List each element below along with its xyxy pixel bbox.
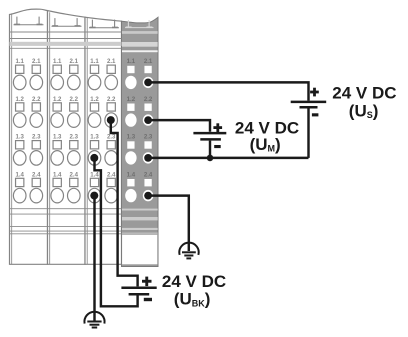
svg-text:2.4: 2.4 [70, 171, 79, 178]
svg-text:2.1: 2.1 [70, 58, 79, 65]
svg-text:2.3: 2.3 [144, 134, 153, 141]
svg-text:1.2: 1.2 [127, 96, 136, 103]
svg-text:2.1: 2.1 [107, 58, 116, 65]
terminal 1.2 module 4 [125, 96, 136, 127]
terminal 2.2 module 1 [30, 96, 43, 128]
terminal 1.4 module 2 [51, 171, 64, 203]
svg-text:1.3: 1.3 [53, 134, 62, 141]
module 1 terminal block [10, 9, 48, 264]
wire 2.1 to US battery plus [148, 82, 308, 100]
terminal 2.2 module 4 [143, 96, 154, 126]
label 24 V DC (US) [332, 84, 396, 121]
wire 2.3 common minus [148, 157, 308, 159]
terminal 2.1 module 4 [143, 58, 154, 88]
svg-text:24 V DC: 24 V DC [332, 84, 396, 103]
module 3 terminal block [85, 17, 122, 264]
terminal 1.3 module 2 [51, 134, 64, 166]
node module3 1.3 [90, 154, 98, 162]
latch icon module 3 [89, 20, 119, 28]
terminal 2.1 module 1 [30, 58, 43, 90]
battery US [291, 102, 327, 107]
svg-text:2.2: 2.2 [32, 96, 41, 103]
node module3 2.2 [107, 116, 115, 124]
label plate module 4 [122, 235, 157, 264]
svg-text:1.1: 1.1 [15, 58, 24, 65]
lower bands dark module [122, 209, 158, 235]
svg-text:1.3: 1.3 [90, 134, 99, 141]
terminal 2.3 module 2 [68, 134, 81, 166]
wire module3 1.4 to protective earth [93, 196, 95, 321]
wire 2.4 to functional earth [148, 196, 189, 251]
label 24 V DC (UBK) [162, 272, 226, 308]
svg-text:2.3: 2.3 [107, 134, 116, 141]
terminal 2.3 module 3 [105, 134, 118, 166]
svg-text:1.1: 1.1 [90, 58, 99, 65]
minus sign UM [214, 145, 221, 148]
svg-text:2.2: 2.2 [144, 96, 153, 103]
minus sign US [312, 113, 319, 116]
battery UBK [121, 288, 156, 295]
node module3 1.4 [90, 192, 98, 200]
terminal 1.1 module 4 [125, 58, 136, 89]
svg-text:2.2: 2.2 [107, 96, 116, 103]
svg-text:1.2: 1.2 [90, 96, 99, 103]
terminal 1.1 module 1 [13, 58, 26, 90]
svg-text:2.1: 2.1 [144, 58, 153, 65]
module 4 bus terminal (highlighted) [122, 17, 159, 266]
ground symbol right [179, 243, 198, 259]
svg-text:24 V DC: 24 V DC [162, 272, 226, 291]
svg-text:1.4: 1.4 [53, 171, 62, 178]
terminal 1.3 module 4 [125, 134, 136, 165]
terminal 2.3 module 4 [143, 134, 154, 164]
latch icon module 4 [125, 20, 154, 28]
terminal 2.4 module 1 [30, 171, 43, 203]
svg-text:1.4: 1.4 [127, 171, 136, 178]
svg-text:1.1: 1.1 [127, 58, 136, 65]
upper band lines light modules [10, 32, 122, 48]
wire 2.2 to UM battery plus [148, 120, 210, 132]
svg-text:1.1: 1.1 [53, 58, 62, 65]
terminal 2.1 module 3 [105, 58, 118, 90]
junction node UM minus [207, 155, 214, 162]
terminal 2.2 module 2 [68, 96, 81, 128]
svg-text:(UM): (UM) [250, 135, 281, 154]
svg-text:1.4: 1.4 [90, 171, 99, 178]
svg-text:1.3: 1.3 [127, 134, 136, 141]
wire module3 2.2 to UBK battery plus [111, 120, 138, 286]
svg-text:2.4: 2.4 [32, 171, 41, 178]
plus sign US [310, 88, 319, 97]
wire UBK battery minus to module3 1.3 [95, 158, 138, 306]
terminal 1.2 module 2 [51, 96, 64, 128]
terminal 2.4 module 4 [143, 171, 154, 201]
terminal 1.2 module 3 [88, 96, 101, 128]
wire US battery minus down [307, 109, 309, 158]
svg-text:(US): (US) [349, 101, 379, 120]
wire UM battery minus down [209, 141, 211, 158]
module 2 terminal block [48, 11, 86, 265]
terminal 1.1 module 2 [51, 58, 64, 90]
svg-text:2.3: 2.3 [32, 134, 41, 141]
svg-text:(UBK): (UBK) [174, 290, 211, 309]
terminal 2.4 module 3 [105, 171, 118, 203]
svg-text:1.4: 1.4 [15, 171, 24, 178]
latch icon module 2 [52, 18, 82, 26]
terminal 1.3 module 3 [88, 134, 101, 166]
upper bands dark module [122, 31, 158, 52]
latch icon module 1 [14, 17, 44, 25]
label 24 V DC (UM) [235, 119, 299, 154]
terminal 2.2 module 3 [105, 96, 118, 128]
svg-text:2.2: 2.2 [70, 96, 79, 103]
svg-text:2.4: 2.4 [144, 171, 153, 178]
lower band lines light modules [10, 209, 122, 234]
svg-text:2.3: 2.3 [70, 134, 79, 141]
svg-text:1.2: 1.2 [15, 96, 24, 103]
upper gray band light modules [10, 42, 122, 46]
svg-text:2.4: 2.4 [107, 171, 116, 178]
svg-text:2.1: 2.1 [32, 58, 41, 65]
terminal 1.2 module 1 [13, 96, 26, 128]
battery UM [193, 133, 226, 139]
plus sign UM [213, 123, 222, 132]
svg-text:1.2: 1.2 [53, 96, 62, 103]
terminal 1.1 module 3 [88, 58, 101, 90]
plus sign UBK [142, 277, 152, 287]
terminal 1.4 module 4 [125, 171, 136, 202]
terminal 1.3 module 1 [13, 134, 26, 166]
minus sign UBK [144, 298, 152, 301]
terminal 2.4 module 2 [68, 171, 81, 203]
terminal 2.1 module 2 [68, 58, 81, 90]
ground symbol bottom left [84, 312, 104, 328]
terminal 2.3 module 1 [30, 134, 43, 166]
terminal 1.4 module 1 [13, 171, 26, 203]
terminal 1.4 module 3 [88, 171, 101, 203]
svg-text:1.3: 1.3 [15, 134, 24, 141]
